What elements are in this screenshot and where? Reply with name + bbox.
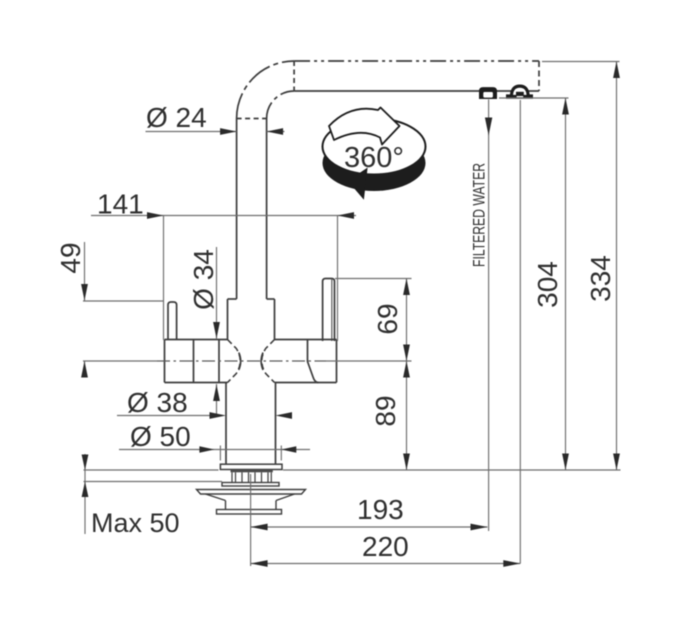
spout horizontal bottom edge	[294, 90, 539, 92]
dimension 49 line	[84, 242, 86, 301]
left valve block right edge	[218, 340, 220, 383]
141 arrows	[147, 212, 164, 219]
filtered water extension line	[488, 100, 490, 532]
svg-text:Max 50: Max 50	[91, 508, 180, 538]
dimension O34 leader	[216, 247, 218, 339]
O38 leader up arrow	[213, 385, 220, 402]
dimension 49 extension lines	[83, 300, 164, 302]
dimension O50 extension stubs	[219, 446, 221, 461]
centerline extension right	[326, 360, 412, 362]
body left end cap	[164, 340, 166, 383]
svg-text:Ø 34: Ø 34	[188, 249, 219, 310]
304 arrows	[562, 98, 569, 115]
waist profile right (hidden dashes)	[262, 340, 275, 383]
body bottom edge	[165, 382, 228, 384]
360 degree rotation symbol	[323, 108, 426, 199]
svg-text:FILTERED WATER: FILTERED WATER	[470, 163, 489, 267]
O50 arrows	[199, 446, 214, 452]
faucet centerline stud	[250, 474, 252, 566]
49 arrows	[81, 284, 88, 301]
left lever handle	[168, 302, 177, 340]
svg-text:141: 141	[97, 189, 144, 220]
body top edge	[165, 339, 228, 341]
threaded shank lines	[232, 472, 271, 482]
filtered water flow arrow	[485, 118, 492, 136]
right lever handle	[323, 279, 335, 342]
O34 leader arrow	[213, 322, 220, 339]
left valve divider line	[193, 340, 195, 383]
mounting nut plate	[222, 483, 279, 487]
svg-text:304: 304	[532, 261, 563, 308]
svg-text:220: 220	[362, 531, 409, 562]
cone skirt left edge	[225, 501, 227, 510]
220 arrows	[251, 560, 268, 567]
Max 50 arrows	[82, 455, 89, 471]
svg-text:Ø 24: Ø 24	[146, 102, 207, 133]
cone skirt right edge	[275, 501, 277, 510]
Max 50 dimension line	[84, 454, 86, 534]
dimension O38 line	[117, 415, 211, 417]
dimension O50 line	[119, 449, 310, 451]
small aerator (filtered water outlet)	[480, 88, 497, 99]
dimension 193 line	[251, 526, 488, 528]
dimension 141 extension lines	[163, 216, 165, 341]
mounting nut reference line	[84, 481, 223, 483]
svg-text:69: 69	[372, 303, 403, 334]
escutcheon top plate	[197, 490, 306, 495]
escutcheon cone right side	[276, 494, 295, 501]
waist profile left solid arc	[239, 353, 241, 371]
upper column (O34) left edge	[227, 299, 229, 340]
body centerline (dash-dot)	[157, 360, 326, 362]
dimension 69/89 line	[406, 279, 408, 471]
spout elbow joint (dashed)	[237, 118, 267, 120]
dimension O38 leader up	[216, 384, 218, 416]
O38 horizontal arrows	[210, 412, 227, 419]
wire: spout riser pipe right edge	[266, 119, 268, 300]
spout elbow end joint (dashed)	[293, 61, 295, 91]
spout elbow inner arc	[267, 91, 295, 119]
waist profile right solid arc	[261, 353, 263, 371]
waist profile left (hidden dashes)	[228, 340, 241, 383]
spout horizontal top edge (phantom chain line)	[294, 60, 539, 62]
svg-text:334: 334	[585, 255, 616, 302]
dimension 334 extension line	[542, 61, 620, 63]
thread collar band	[231, 470, 273, 473]
escutcheon cone left side	[206, 494, 226, 501]
O24 arrows	[220, 128, 237, 135]
body right end cap	[336, 340, 338, 383]
lower column (O38) left edge	[225, 383, 227, 465]
334 arrows	[613, 62, 620, 79]
body step at top of cartridge column	[228, 298, 237, 300]
main outlet extension line	[519, 100, 521, 564]
svg-text:89: 89	[370, 395, 401, 426]
dimension 304 line	[565, 98, 567, 470]
right valve block left edge + lever silhouette diagonal	[308, 340, 319, 383]
dimension 334 line	[616, 62, 618, 471]
svg-text:Ø 38: Ø 38	[127, 387, 188, 418]
dimension 220 line	[251, 563, 521, 565]
spout elbow outer arc	[237, 61, 295, 119]
svg-text:193: 193	[357, 494, 404, 525]
89 arrows	[403, 361, 410, 378]
lower column (O38) right edge	[275, 383, 277, 465]
svg-text:49: 49	[55, 242, 86, 273]
dimension 69 extension line (lever top)	[335, 278, 412, 280]
countertop reference line	[84, 469, 219, 471]
dimension 141 line	[91, 215, 356, 217]
wire: spout riser pipe left edge	[236, 119, 238, 300]
dimension O24 line	[146, 131, 237, 133]
svg-text:Ø 50: Ø 50	[130, 421, 191, 452]
svg-text:360°: 360°	[344, 142, 404, 174]
spout end cap (dashed)	[538, 61, 540, 91]
base bottom plate	[217, 510, 282, 515]
base flange	[220, 464, 282, 469]
large aerator (main outlet)	[507, 85, 533, 98]
193 arrows	[251, 524, 268, 531]
69 arrows	[403, 279, 410, 296]
upper column (O34) right edge	[274, 299, 276, 340]
dimension 304 extension line	[499, 97, 569, 99]
